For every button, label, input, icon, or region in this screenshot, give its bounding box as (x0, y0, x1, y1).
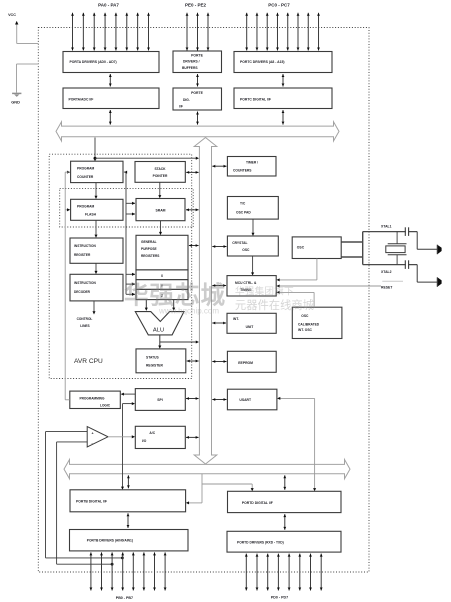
wire oscillator to MCU ctrl (276, 259, 317, 282)
wire tap to register Y (126, 283, 135, 286)
register Z row (136, 289, 188, 299)
svg-text:PA0 - PA7: PA0 - PA7 (98, 2, 119, 7)
svg-text:PORTD DRIVERS (RXD - TXD): PORTD DRIVERS (RXD - TXD) (237, 540, 284, 544)
wire calibrated osc to MCU ctrl (276, 291, 314, 307)
wire registers to vertical bus (189, 244, 199, 247)
block PORTD drivers (227, 531, 341, 552)
wire interrupt unit to vertical bus (212, 322, 226, 325)
wire RESET to MCU ctrl (276, 284, 381, 287)
svg-text:STATUS: STATUS (146, 356, 159, 360)
svg-text:DECODER: DECODER (74, 290, 91, 294)
svg-text:DRIVERS /: DRIVERS / (183, 60, 200, 64)
svg-text:REGISTER: REGISTER (146, 364, 163, 368)
svg-text:元器件在线商城: 元器件在线商城 (235, 298, 314, 312)
svg-text:UNIT: UNIT (246, 325, 254, 329)
svg-text:COUNTER: COUNTER (77, 175, 94, 179)
wire program counter right tap (124, 171, 127, 295)
wire PORTC drivers to interface (282, 74, 285, 87)
svg-text:OSC: OSC (242, 248, 250, 252)
svg-text:PD0 - PD7: PD0 - PD7 (271, 595, 288, 599)
block PORTB drivers (70, 530, 189, 551)
block SRAM (136, 199, 185, 221)
watermark hqchip (124, 281, 314, 316)
wire comparator input AIN1 (57, 442, 114, 566)
wire stack pointer to SRAM (158, 182, 161, 198)
svg-text:INSTRUCTION: INSTRUCTION (74, 244, 96, 248)
svg-text:DIG.: DIG. (183, 98, 190, 102)
svg-text:A/C: A/C (149, 431, 155, 435)
data bus upper (horizontal double arrow) (56, 122, 339, 141)
label control lines (77, 317, 93, 328)
flash-sram dashed box (60, 189, 194, 227)
block oscillator T/C (227, 197, 278, 220)
block USART U7 (227, 389, 277, 410)
wire PORTB interface to drivers (127, 513, 130, 528)
svg-text:REGISTERS: REGISTERS (141, 254, 159, 258)
svg-text:PORTA DRIVERS (AD0 - AD7): PORTA DRIVERS (AD0 - AD7) (70, 60, 117, 64)
svg-text:PORTE: PORTE (191, 91, 203, 95)
wire stack pointer to vertical bus (186, 171, 198, 174)
wire instruction register to decoder (94, 263, 97, 274)
svg-text:PORTB DRIVERS (AIN0/AIN1): PORTB DRIVERS (AIN0/AIN1) (87, 538, 133, 542)
svg-text:XTAL2: XTAL2 (381, 270, 392, 274)
port D pins PD0-PD7 (245, 554, 323, 591)
wire EEPROM to vertical bus (212, 360, 226, 363)
block PORTA drivers (63, 52, 159, 73)
block MCU control and timing (227, 276, 276, 296)
watermark gray line (382, 280, 403, 282)
svg-text:PORTC DRIVERS (A8 - A15): PORTC DRIVERS (A8 - A15) (240, 60, 285, 64)
label XTAL2 (381, 270, 392, 274)
wire PORTA drivers to interface (109, 74, 112, 87)
wire comparator input AIN0 (46, 432, 124, 560)
wire SPI to PORTB interface (121, 402, 135, 490)
terminal XTAL2 (437, 277, 441, 287)
svg-text:LOGIC: LOGIC (100, 403, 111, 407)
svg-text:PC0 - PC7: PC0 - PC7 (268, 2, 290, 7)
port A pins PA0-PA7 (71, 13, 150, 51)
block status register (136, 349, 186, 373)
wire bus to PORTB interface (127, 475, 130, 488)
capacitor C2 (405, 260, 408, 269)
block instruction decoder (70, 274, 123, 301)
svg-text:OSC PAD: OSC PAD (236, 211, 251, 215)
outer dashed chip boundary (38, 28, 369, 573)
block PORTA digital interface (63, 88, 159, 109)
analog comparator (87, 427, 108, 447)
block PORTE digital interface (173, 88, 222, 110)
wire PORTE interface to data bus (196, 112, 199, 125)
block programming logic (70, 391, 121, 408)
svg-text:GND: GND (11, 100, 20, 105)
svg-text:MCU CTRL. &: MCU CTRL. & (235, 281, 257, 285)
svg-text:VCC: VCC (8, 13, 16, 17)
pin label PE0 - PE2 (185, 2, 207, 7)
svg-text:SPI: SPI (157, 398, 163, 402)
svg-text:PE0 - PE2: PE0 - PE2 (185, 2, 207, 7)
wire timer block to vertical bus (212, 165, 226, 168)
svg-text:INT.: INT. (233, 317, 239, 321)
svg-text:PB0 - PB7: PB0 - PB7 (116, 596, 133, 600)
wire SPI to vertical bus (186, 397, 199, 400)
block stack pointer (135, 162, 185, 183)
svg-text:INSTRUCTION: INSTRUCTION (74, 281, 96, 285)
block PORTC drivers (234, 52, 332, 73)
block instruction register (70, 238, 123, 263)
wire tap to SRAM upper (126, 202, 135, 205)
port E pins PE0-PE2 (186, 13, 210, 51)
wire bus to program counter top (93, 138, 96, 162)
AVR CPU dashed box (49, 154, 192, 378)
wire program counter row to vertical bus (95, 157, 199, 160)
wire USART to PORTD interface (277, 397, 316, 491)
register Y row (136, 280, 188, 290)
wire tap to SRAM lower (126, 212, 135, 215)
svg-text:SRAM: SRAM (156, 209, 166, 213)
wire PORTD interface to drivers (283, 514, 286, 530)
block EEPROM (227, 351, 276, 372)
block calibrated internal oscillator (292, 307, 342, 338)
block oscillator main (292, 237, 341, 259)
wire programming logic feed (65, 171, 70, 400)
label RESET (381, 286, 393, 290)
wire status register to vertical bus (187, 360, 199, 363)
wire tap to register X (126, 273, 135, 276)
svg-text:REGISTER: REGISTER (74, 253, 91, 257)
block program flash (71, 199, 123, 220)
svg-text:ALU: ALU (153, 327, 164, 333)
svg-text:OSC: OSC (301, 314, 309, 318)
wire XTAL1 to terminal (417, 232, 437, 250)
svg-text:POINTER: POINTER (153, 174, 168, 178)
wire osc block down (251, 219, 254, 236)
wire XTAL vertical join (362, 232, 364, 265)
label AVR CPU (74, 358, 103, 365)
wire bus elbow to PORTD and PORTB (186, 474, 254, 505)
pin label PA0 - PA7 (98, 2, 119, 7)
svg-text:+: + (92, 432, 94, 436)
data bus lower (horizontal double arrow) (64, 460, 350, 479)
svg-text:GENERAL: GENERAL (141, 240, 157, 244)
wire oscillator stub upper (341, 241, 363, 243)
VCC pin (8, 13, 38, 43)
wire oscillator stub lower (341, 256, 363, 258)
wire MCU ctrl to vertical bus (212, 284, 226, 287)
port B pins PB0-PB7 (90, 552, 167, 590)
wire program flash to instruction register (94, 220, 97, 238)
wire registers to ALU left (145, 300, 148, 311)
block PORTC digital interface (234, 88, 332, 109)
block interrupt unit (227, 313, 276, 333)
pin label PB0 - PB7 (116, 596, 133, 600)
wire PORTA interface to data bus (109, 110, 112, 125)
ALU unit (135, 312, 184, 335)
wire XTAL2 to terminal (417, 265, 437, 283)
svg-text:PROGRAM: PROGRAM (77, 167, 94, 171)
crystal Y1 (386, 232, 407, 265)
svg-text:XTAL1: XTAL1 (381, 224, 392, 228)
block timer counters (227, 157, 276, 177)
wire PORTC interface to data bus (282, 110, 285, 125)
svg-text:华强芯城: 华强芯城 (124, 281, 226, 310)
svg-text:PROGRAM: PROGRAM (77, 205, 94, 209)
wire SRAM to general purpose registers (159, 221, 162, 235)
wire SRAM to vertical bus (186, 208, 199, 211)
svg-text:AVR CPU: AVR CPU (74, 358, 103, 365)
block general purpose registers (136, 235, 188, 270)
svg-text:STACK: STACK (154, 167, 166, 171)
svg-text:华强集团旗下: 华强集团旗下 (235, 284, 294, 297)
terminal XTAL1 (437, 245, 441, 255)
label XTAL1 (381, 224, 392, 228)
register X row (136, 270, 188, 280)
svg-text:I/O: I/O (142, 439, 147, 443)
svg-text:PORTE: PORTE (191, 54, 203, 58)
svg-text:CALIBRATED: CALIBRATED (298, 322, 320, 326)
wire tap to register Z (126, 293, 135, 296)
wire PORTE drivers to interface (196, 74, 199, 87)
svg-text:T/C: T/C (240, 202, 246, 206)
svg-text:PORTD DIGITAL I/F: PORTD DIGITAL I/F (242, 501, 273, 505)
svg-text:INT. OSC: INT. OSC (298, 328, 313, 332)
block comparator interface (135, 426, 185, 448)
block PORTD digital interface (228, 491, 342, 512)
svg-text:CONTROL: CONTROL (77, 317, 93, 321)
capacitor C1 (405, 227, 408, 236)
wire comparator to interface (108, 435, 135, 438)
svg-text:PORTC DIGITAL I/F: PORTC DIGITAL I/F (240, 97, 271, 101)
pin label PC0 - PC7 (268, 2, 290, 7)
block SPI (135, 389, 185, 411)
svg-text:TIMER /: TIMER / (246, 161, 258, 165)
svg-text:PURPOSE: PURPOSE (141, 247, 157, 251)
block program counter U-PC (71, 161, 123, 182)
wire registers to ALU right (172, 300, 175, 311)
svg-text:PORTA/ADC I/F: PORTA/ADC I/F (69, 97, 94, 101)
block PORTB digital interface (70, 490, 186, 512)
svg-text:EEPROM: EEPROM (238, 361, 253, 365)
svg-text:CRYSTAL: CRYSTAL (232, 241, 247, 245)
svg-text:PROGRAMMING: PROGRAMMING (80, 397, 105, 401)
svg-text:COUNTERS: COUNTERS (233, 169, 252, 173)
wire ALU to status register (158, 335, 199, 349)
wire bus to PORTD interface (283, 475, 286, 490)
port C pins PC0-PC7 (245, 13, 320, 51)
block crystal control (227, 236, 278, 256)
wire USART to vertical bus (212, 398, 226, 401)
wire SPI to programming logic (121, 393, 136, 396)
wire XTAL1 line (363, 231, 418, 233)
svg-text:RESET: RESET (381, 286, 393, 290)
svg-text:OSC: OSC (297, 246, 305, 250)
svg-text:BUFFERS: BUFFERS (182, 66, 198, 70)
svg-text:FLASH: FLASH (85, 213, 97, 217)
pin label PD0 - PD7 (271, 595, 288, 599)
svg-text:LINES: LINES (80, 324, 89, 328)
wire program counter to program flash (94, 183, 97, 199)
wire crystal block to vertical bus (212, 245, 226, 248)
svg-text:www.hqchip.com: www.hqchip.com (158, 306, 219, 315)
svg-text:USART: USART (239, 398, 252, 402)
block PORTE drivers (173, 51, 222, 73)
svg-text:I/F: I/F (179, 105, 183, 109)
wire crystal down to MCU ctrl (251, 256, 254, 276)
wire XTAL2 line (363, 264, 418, 266)
wire decoder to control lines (92, 301, 95, 315)
data bus vertical (center) (194, 138, 217, 465)
ground GND (11, 64, 38, 105)
wire comparator interface to vertical bus (186, 436, 199, 439)
svg-text:PORTB DIGITAL I/F: PORTB DIGITAL I/F (76, 499, 107, 503)
